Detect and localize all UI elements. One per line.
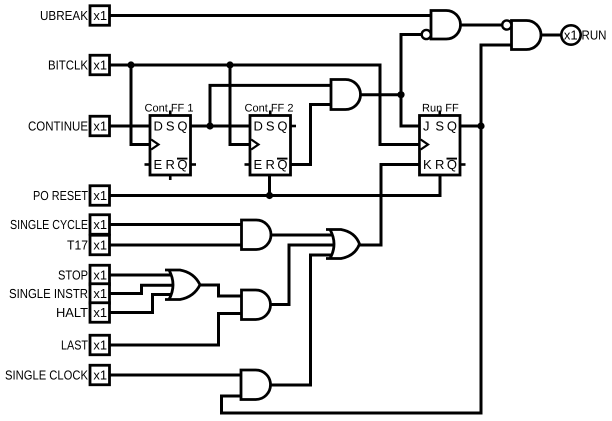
- wire Cont FF 2 Qbar to AND U4 input B: [291, 105, 332, 165]
- wire PO RESET trunk: [110, 175, 441, 196]
- overbar Cont FF 2 Qbar: [277, 158, 288, 160]
- svg-text:x1: x1: [93, 305, 107, 320]
- svg-text:Run FF: Run FF: [422, 102, 459, 114]
- input pad UBREAK (x1): [90, 6, 110, 26]
- svg-text:SINGLE INSTR: SINGLE INSTR: [9, 286, 88, 301]
- wire BITCLK branch to Cont FF 2 clock: [230, 65, 250, 145]
- svg-text:CONTINUE: CONTINUE: [28, 119, 88, 134]
- input pad SINGLE CYCLE (x1): [90, 215, 110, 235]
- svg-text:K: K: [423, 157, 432, 172]
- input pad LAST (x1): [90, 335, 110, 355]
- input pad BITCLK (x1): [90, 55, 110, 75]
- wire STOP to OR U6: [110, 274, 180, 277]
- wire node to NAND U1 inverted input: [401, 35, 423, 95]
- svg-text:S: S: [266, 119, 275, 134]
- svg-text:T17: T17: [67, 238, 88, 253]
- wire BITCLK trunk to Run FF clock: [110, 65, 420, 145]
- wire Run FF Q to node: [460, 125, 481, 128]
- svg-text:R: R: [266, 157, 275, 172]
- svg-text:R: R: [435, 157, 444, 172]
- wire SINGLE CYCLE to AND U5: [110, 223, 242, 226]
- svg-text:E: E: [154, 157, 163, 172]
- wire Cont FF 1 Q to Cont FF 2 D: [191, 125, 251, 128]
- and-gate U4 (FF1.Q & FF2.Qbar): [331, 80, 361, 110]
- junction PO RESET / FF2 R: [266, 192, 273, 199]
- svg-text:x1: x1: [93, 268, 107, 283]
- or-gate U6 (STOP | SINGLE INSTR | HALT): [165, 270, 200, 300]
- input pad STOP (x1): [90, 265, 110, 285]
- svg-text:x1: x1: [93, 286, 107, 301]
- svg-text:UBREAK: UBREAK: [40, 8, 88, 23]
- input pad SINGLE CLOCK (x1): [90, 365, 110, 385]
- inverting bubble U1 lower input: [422, 30, 431, 39]
- svg-text:STOP: STOP: [58, 268, 88, 283]
- svg-text:x1: x1: [93, 8, 107, 23]
- junction BITCLK / FF2 clock: [226, 61, 233, 68]
- wire AND U5 output to OR U7 input 1: [271, 234, 340, 237]
- svg-text:LAST: LAST: [61, 338, 88, 353]
- or-gate U7 (3-input): [326, 230, 360, 259]
- and-gate U5 (SINGLE CYCLE & T17): [242, 220, 272, 250]
- svg-text:PO RESET: PO RESET: [33, 188, 88, 203]
- wire OR U6 output to AND U3: [200, 285, 242, 296]
- wire U2 output to pad RUN: [541, 34, 566, 37]
- svg-text:D: D: [254, 119, 263, 134]
- wire Cont FF 1 Q branch to AND U4 input A: [210, 85, 332, 126]
- wire LAST to AND U3: [110, 314, 242, 346]
- svg-text:x1: x1: [93, 217, 107, 232]
- wire PO RESET branch to Cont FF 2 R: [268, 175, 271, 196]
- svg-text:S: S: [166, 119, 175, 134]
- wire CONTINUE to Cont FF 1 D: [110, 125, 151, 128]
- wire T17 to AND U5: [110, 244, 242, 247]
- wire AND U4 output node: [361, 93, 402, 96]
- input pad SINGLE INSTR (x1): [90, 284, 110, 304]
- overbar Run FF Qbar: [447, 158, 458, 160]
- svg-text:Cont FF 1: Cont FF 1: [145, 102, 194, 114]
- junction AND U4 output node: [397, 91, 404, 98]
- svg-text:SINGLE CLOCK: SINGLE CLOCK: [5, 368, 88, 383]
- input pad PO RESET (x1): [90, 186, 110, 206]
- svg-text:x1: x1: [93, 238, 107, 253]
- svg-text:Q: Q: [447, 119, 457, 134]
- svg-text:x1: x1: [93, 368, 107, 383]
- wire SINGLE CLOCK to AND U8: [110, 374, 242, 377]
- wire OR U7 output to Run FF K: [360, 165, 420, 246]
- svg-text:x1: x1: [564, 28, 578, 43]
- wire UBREAK net: [110, 14, 432, 17]
- svg-text:RUN: RUN: [582, 28, 607, 43]
- svg-text:x1: x1: [93, 119, 107, 134]
- and-gate U3 (U6 & LAST): [242, 290, 271, 320]
- svg-text:Q: Q: [277, 119, 287, 134]
- svg-text:Q: Q: [177, 119, 187, 134]
- wire HALT to OR U6: [110, 295, 180, 313]
- svg-text:SINGLE CYCLE: SINGLE CYCLE: [10, 217, 88, 232]
- overbar Cont FF 1 Qbar: [177, 158, 188, 160]
- output pad RUN (x1): [561, 25, 580, 44]
- svg-text:BITCLK: BITCLK: [48, 58, 88, 73]
- and-gate U8 (SINGLE CLOCK & feedback): [241, 370, 271, 400]
- wire SINGLE INSTR to OR U6: [110, 285, 180, 293]
- svg-text:S: S: [435, 119, 444, 134]
- inverting bubble U2 upper input: [502, 20, 511, 29]
- wire U1 output to U2 inverted input: [461, 24, 505, 27]
- svg-text:D: D: [154, 119, 163, 134]
- flip-flop U10 Cont FF 1: [150, 116, 191, 176]
- svg-text:x1: x1: [93, 58, 107, 73]
- flip-flop U12 Run FF: [420, 116, 461, 176]
- svg-text:x1: x1: [93, 188, 107, 203]
- wire node to Run FF J: [401, 95, 420, 126]
- svg-text:R: R: [166, 157, 175, 172]
- junction BITCLK / FF1 clock: [127, 61, 134, 68]
- input pad T17 (x1): [90, 235, 110, 255]
- input pad CONTINUE (x1): [90, 116, 110, 136]
- svg-text:E: E: [254, 157, 263, 172]
- junction Cont FF 1 Q node: [206, 122, 213, 129]
- wire RUN feedback net to U2 and AND U8: [222, 45, 512, 413]
- svg-text:x1: x1: [93, 338, 107, 353]
- junction Run FF Q node: [477, 122, 484, 129]
- gate U2 (/U1 & RunFF.Q): [512, 21, 542, 50]
- wire AND U3 output to OR U7 input 2: [271, 245, 341, 305]
- nand-style gate U1 (UBREAK & /node): [431, 11, 460, 40]
- wire AND U8 output to OR U7 input 3: [271, 255, 341, 385]
- svg-text:HALT: HALT: [56, 305, 88, 320]
- input pad HALT (x1): [90, 303, 110, 323]
- flip-flop U11 Cont FF 2: [250, 116, 291, 176]
- svg-text:J: J: [423, 119, 430, 134]
- wire BITCLK branch to Cont FF 1 clock: [131, 65, 150, 145]
- svg-text:Cont FF 2: Cont FF 2: [245, 102, 294, 114]
